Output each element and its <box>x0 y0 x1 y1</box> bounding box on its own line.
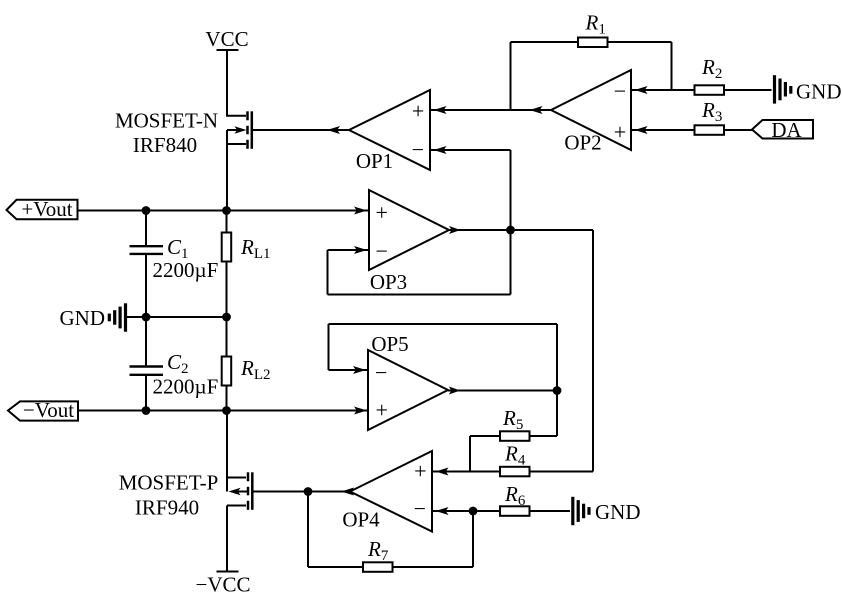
capacitor C1 <box>130 211 164 318</box>
resistor R1 <box>578 38 608 48</box>
svg-text:MOSFET-P: MOSFET-P <box>119 471 219 495</box>
svg-text:−: − <box>412 137 424 162</box>
node junction OP3 output / OP1 feedback <box>506 226 515 235</box>
svg-text:−Vout: −Vout <box>23 398 74 422</box>
svg-text:OP3: OP3 <box>370 270 407 294</box>
wire R5 to OP4 + input line <box>470 436 500 472</box>
svg-text:GND: GND <box>595 500 641 524</box>
svg-text:+: + <box>375 200 387 225</box>
node junction -Vout/RL2 <box>222 406 231 415</box>
svg-text:−: − <box>375 360 387 385</box>
wire GND rail <box>127 316 227 318</box>
svg-text:VCC: VCC <box>205 27 248 51</box>
node junction +Vout/RL1 <box>222 206 231 215</box>
wire OP2 - input to GND via R2 <box>631 89 772 91</box>
svg-text:2200µF: 2200µF <box>153 375 219 399</box>
svg-text:IRF840: IRF840 <box>133 133 197 157</box>
wire OP3 - input feedback loop <box>328 230 511 295</box>
op-amp OP2 <box>551 70 631 150</box>
svg-text:RL2: RL2 <box>240 356 271 383</box>
svg-text:R1: R1 <box>585 11 606 38</box>
wire R7 feedback from OP4 output to OP4 - input <box>308 492 473 568</box>
node junction +Vout/C1 <box>142 206 151 215</box>
VCC power symbol <box>217 49 239 51</box>
resistor RL2 <box>222 317 232 411</box>
resistor R4 <box>500 467 530 477</box>
resistor R5 <box>500 431 530 441</box>
wire OP2 output to OP1 + input <box>430 109 551 111</box>
svg-text:R2: R2 <box>701 55 722 82</box>
resistor R2 <box>695 85 725 95</box>
wire gate of MOSFET-P to OP4 output <box>252 491 350 493</box>
svg-text:R5: R5 <box>502 406 523 433</box>
svg-text:+: + <box>414 458 426 483</box>
power -VCC symbol <box>217 571 239 573</box>
svg-text:MOSFET-N: MOSFET-N <box>115 109 218 133</box>
wire VCC to MOSFET-N drain <box>226 50 228 117</box>
node junction OP5 output / R5 <box>553 386 562 395</box>
wire OP3 output down to R4 <box>530 230 593 472</box>
wire OP5 - input feedback loop <box>329 324 558 391</box>
wire OP4 + input to R4 <box>432 471 593 473</box>
node junction OP4 - input / R7 <box>469 507 478 516</box>
node -Vout tag <box>8 401 78 420</box>
capacitor C2 <box>130 317 164 411</box>
wire OP1 - input to node under OP2 <box>430 149 511 151</box>
transistor MOSFET-N IRF840 <box>227 111 252 149</box>
svg-text:+: + <box>375 398 387 423</box>
op-amp OP4 <box>350 451 432 532</box>
wire OP2 + input to DA via R3 <box>631 129 752 131</box>
resistor R6 <box>500 506 530 516</box>
svg-text:OP5: OP5 <box>371 332 408 356</box>
svg-text:R7: R7 <box>367 537 389 564</box>
wire MOSFET-N source down to +Vout node <box>226 130 228 211</box>
node DA input tag <box>752 120 813 139</box>
resistor RL1 <box>222 211 232 318</box>
wire OP4 - input to GND via R6 <box>432 510 570 512</box>
svg-text:−: − <box>614 78 626 103</box>
wire gate of MOSFET-N to OP1 output <box>252 129 349 131</box>
svg-text:−VCC: −VCC <box>195 573 250 597</box>
svg-text:OP4: OP4 <box>342 508 380 532</box>
node junction GND/C1 <box>142 313 151 322</box>
svg-text:OP2: OP2 <box>564 131 601 155</box>
wire OP3 output to right vertical bus <box>449 229 593 231</box>
op-amp OP3 <box>369 190 449 270</box>
wire OP5 output down to R5 <box>530 391 557 437</box>
svg-text:+: + <box>412 99 424 124</box>
resistor R3 <box>695 125 725 135</box>
node junction -Vout/C2 <box>142 406 151 415</box>
svg-text:DA: DA <box>771 118 802 142</box>
svg-text:−: − <box>414 496 426 521</box>
svg-text:GND: GND <box>60 306 106 330</box>
svg-text:−: − <box>375 239 387 264</box>
node +Vout tag <box>7 200 78 219</box>
svg-text:+: + <box>614 119 626 144</box>
wire MOSFET-P drain down to -VCC <box>226 506 228 572</box>
ground GND bottom right <box>573 497 589 525</box>
svg-text:OP1: OP1 <box>356 149 393 173</box>
svg-text:R6: R6 <box>504 482 526 509</box>
svg-text:RL1: RL1 <box>240 235 271 262</box>
op-amp OP5 <box>368 350 448 430</box>
resistor R7 <box>363 562 393 572</box>
transistor MOSFET-P IRF940 <box>227 472 252 510</box>
svg-text:R3: R3 <box>701 98 722 125</box>
node junction OP4 output / R7 <box>304 487 313 496</box>
svg-text:+Vout: +Vout <box>21 197 72 221</box>
wire +Vout rail to OP3 + input <box>77 210 370 212</box>
svg-text:GND: GND <box>796 80 842 104</box>
ground GND top right <box>775 75 791 103</box>
node junction GND/RL1 <box>222 313 231 322</box>
svg-text:IRF940: IRF940 <box>135 496 199 520</box>
ground GND middle left <box>109 303 125 331</box>
wire OP5 output <box>448 390 557 392</box>
wire -Vout rail to OP5 + input <box>78 410 368 412</box>
wire -Vout node down to MOSFET-P source <box>226 411 228 492</box>
svg-text:C2: C2 <box>167 350 189 377</box>
svg-text:R4: R4 <box>504 442 526 469</box>
wire feedback loop of OP2 via R1 <box>510 42 512 110</box>
svg-text:2200µF: 2200µF <box>153 258 219 282</box>
op-amp OP1 <box>349 90 430 170</box>
